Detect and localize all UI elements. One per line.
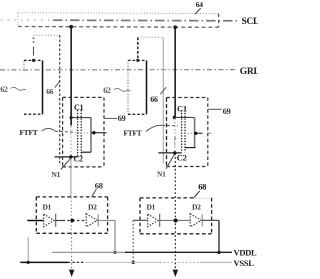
- svg-text:N1: N1: [52, 170, 61, 179]
- svg-text:66: 66: [150, 95, 158, 104]
- wire source to data line left: [55, 156, 78, 158]
- junction dot drain right: [194, 132, 197, 135]
- svg-text:62: 62: [0, 85, 8, 94]
- wire corner bit right below C1: [174, 137, 176, 139]
- junction dot N1-diodes left: [70, 219, 74, 223]
- wire source to data line right: [158, 152, 181, 154]
- wire anode to VSSL left: [27, 237, 29, 262]
- junction dot left pixel on bus: [69, 25, 73, 29]
- wire between diodes left: [56, 220, 86, 222]
- FTFT plates left: [78, 110, 82, 157]
- label 66 right: [150, 87, 166, 104]
- svg-text:D2: D2: [88, 203, 97, 212]
- wire drain stub left: [91, 132, 107, 134]
- svg-text:62: 62: [103, 86, 111, 95]
- wire anode-in left: [27, 220, 43, 222]
- label N1 right: [157, 155, 174, 179]
- wire dotted horizontal to data line right: [138, 36, 164, 38]
- svg-text:C1: C1: [177, 104, 187, 114]
- transistor FTFT label left: [20, 128, 75, 137]
- junction dot VDDL right: [217, 251, 220, 254]
- svg-text:D1: D1: [147, 203, 156, 212]
- wire dash-dot stub above electrode left: [32, 37, 35, 61]
- svg-text:FTFT: FTFT: [124, 129, 142, 138]
- junction dot C1 left: [70, 116, 73, 119]
- svg-text:VDDL: VDDL: [234, 248, 258, 258]
- junction dot N1-diodes right: [174, 219, 178, 223]
- svg-text:C2: C2: [74, 154, 83, 163]
- svg-text:VSSL: VSSL: [234, 258, 255, 268]
- diode D1 left: [44, 214, 56, 227]
- svg-text:64: 64: [196, 0, 203, 9]
- wire drain stub left dotted: [75, 132, 91, 134]
- svg-text:68: 68: [198, 182, 206, 192]
- wire dashed stub above electrode right: [137, 38, 139, 59]
- wire C1 top right: [174, 116, 194, 118]
- wire C2 bottom right: [185, 147, 196, 149]
- svg-text:FTFT: FTFT: [20, 128, 38, 137]
- label 68 left: [92, 180, 103, 197]
- wire gate line left (SCL to FTFT): [70, 27, 72, 157]
- wire drain stub right dotted: [185, 132, 195, 134]
- FTFT channel bar right: [194, 117, 196, 147]
- wire drain stub right: [195, 132, 203, 134]
- junction dot VDDL left: [113, 251, 116, 254]
- wire anode-in right: [133, 219, 147, 221]
- junction dot VSSL left: [27, 261, 30, 264]
- svg-text:C1: C1: [74, 103, 83, 112]
- svg-text:68: 68: [95, 180, 103, 190]
- svg-text:D2: D2: [192, 203, 201, 212]
- svg-text:69: 69: [118, 113, 126, 123]
- wire between diodes right: [160, 219, 190, 221]
- node N1 wire down left: [70, 159, 73, 269]
- junction dot drain left: [92, 131, 95, 134]
- svg-text:C2: C2: [177, 153, 187, 163]
- diode D2 right: [190, 214, 202, 227]
- node N1 wire down right: [174, 153, 176, 269]
- pixel electrode 62 left: [24, 60, 43, 114]
- diode box 68 right: [140, 198, 212, 234]
- wire drain dash outside box right: [208, 132, 211, 134]
- label 62 right: [103, 86, 130, 95]
- junction dot C1 right: [173, 116, 176, 119]
- dashed box 69 left (FTFT enclosure): [63, 97, 104, 166]
- wire VSSL rail: [20, 261, 232, 263]
- label 62 left: [0, 85, 26, 94]
- wire dotted horizontal to data line left: [34, 34, 60, 36]
- data line 66 left (dashed vertical): [59, 35, 61, 164]
- wire anode to VSSL right: [132, 220, 134, 262]
- svg-text:N1: N1: [157, 170, 166, 179]
- FTFT plates right: [182, 110, 185, 152]
- wire C2 bottom left: [81, 151, 91, 153]
- junction dot VSSL right: [132, 261, 135, 264]
- label 64: [195, 0, 203, 14]
- diode D1 right: [148, 214, 160, 227]
- wire SCL dash-dot centerline: [1, 19, 238, 22]
- label 66 left: [46, 82, 59, 96]
- wire GRL dashed line: [0, 69, 237, 71]
- svg-text:SCL: SCL: [242, 17, 259, 27]
- wire cathode-out right to VDDL: [202, 220, 219, 252]
- junction dot N1 right: [173, 151, 176, 154]
- pixel electrode 62 right: [128, 60, 147, 114]
- wire cathode-out left to VDDL: [98, 220, 115, 252]
- diode D2 left: [86, 214, 98, 227]
- junction dot right pixel on bus: [173, 25, 177, 29]
- svg-text:66: 66: [46, 87, 53, 96]
- wire VDDL rail: [52, 251, 232, 253]
- arrow N1 down right: [173, 270, 179, 277]
- scan line bus box 64: [18, 13, 219, 28]
- svg-text:GRL: GRL: [240, 67, 258, 77]
- transistor FTFT label right: [124, 125, 179, 137]
- svg-text:69: 69: [223, 106, 231, 116]
- label N1 left: [52, 158, 71, 179]
- wire gate line right (SCL to FTFT): [174, 27, 176, 152]
- wire C1 top left: [71, 117, 91, 119]
- label 68 right: [194, 182, 207, 199]
- dashed box 69 right (FTFT enclosure): [167, 98, 208, 167]
- junction dot N1 left: [69, 155, 72, 158]
- FTFT channel bar left: [90, 118, 92, 153]
- label 69 left: [105, 113, 126, 123]
- data line 66 right (gray vertical): [162, 37, 164, 163]
- svg-text:D1: D1: [43, 203, 52, 212]
- label 69 right: [208, 106, 230, 116]
- diode box 68 left: [36, 197, 107, 233]
- arrow N1 down left: [69, 270, 75, 277]
